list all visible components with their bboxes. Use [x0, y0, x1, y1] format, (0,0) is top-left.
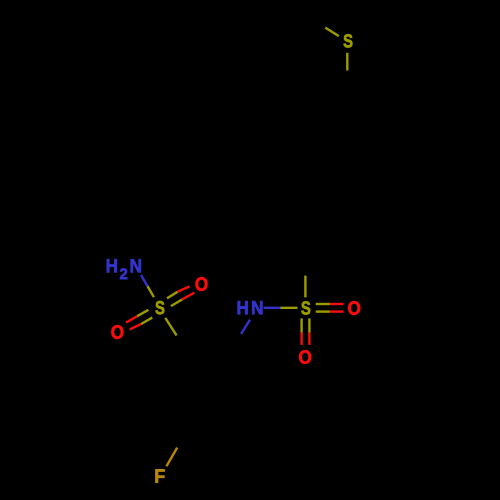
- node N of HN label: [252, 301, 262, 314]
- wire: N-S bond, S half: [281, 307, 298, 309]
- node N of H2N label: [131, 259, 141, 272]
- wire: S=O sw line1, O half: [126, 316, 137, 322]
- wire: ring C5-F bond, F half: [166, 448, 177, 467]
- wire: S=O right line2, S half: [316, 310, 330, 312]
- wire: S=O right line1, O half: [330, 303, 344, 305]
- node S sulfonamide label: [155, 301, 164, 314]
- wire: S=O right line1, S half: [316, 303, 330, 305]
- node O lower-left of sulfonamide: [111, 325, 123, 339]
- node S methanesulfonyl label: [301, 301, 310, 314]
- wire: S=O down line1, S half: [300, 318, 302, 332]
- wire: S=O ne line2, O half: [182, 293, 194, 300]
- node O upper-right of sulfonamide: [196, 277, 208, 291]
- node H of HN label: [238, 301, 248, 314]
- wire: CH3-S bond, S half: [325, 28, 339, 36]
- wire: S-aryl bond, S half: [346, 53, 348, 71]
- wire: S-ring C1 bond, S half: [165, 318, 176, 336]
- wire: S=O down line2, S half: [308, 318, 310, 332]
- wire: S=O ne line1, O half: [178, 286, 190, 291]
- wire: ring C2-NH bond, N half: [241, 320, 250, 334]
- wire: S=O sw line2, S half: [141, 318, 152, 324]
- node S thioether label: [344, 34, 353, 47]
- wire: S=O right line2, O half: [330, 310, 344, 312]
- wire: H2N-S bond, N half: [141, 275, 148, 286]
- node O below methanesulfonyl: [299, 350, 311, 364]
- node subscript 2 of H2N label: [120, 268, 127, 279]
- node F fluorine label: [155, 469, 164, 482]
- wire: S=O sw line2, O half: [130, 324, 141, 329]
- wire: H2N-S bond, S half: [148, 286, 154, 297]
- wire: S-CH2 bond, S half: [304, 276, 306, 298]
- node H of H2N label: [107, 259, 117, 272]
- wire: S=O sw line1, S half: [137, 310, 148, 316]
- wire: S=O ne line1, S half: [167, 292, 178, 299]
- node O right of methanesulfonyl: [348, 301, 360, 315]
- wire: S=O down line1, O half: [300, 333, 302, 345]
- wire: S=O ne line2, S half: [171, 300, 182, 307]
- wire: N-S bond, N half: [264, 307, 281, 309]
- wire: S=O down line2, O half: [308, 333, 310, 345]
